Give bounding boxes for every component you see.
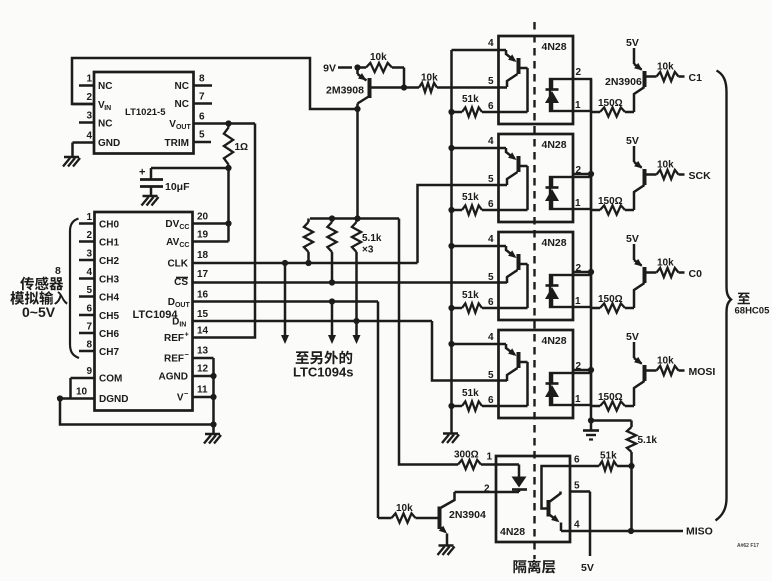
U2 pin 11 V- — [177, 385, 214, 404]
svg-text:6: 6 — [574, 455, 580, 466]
transistor Q3 2N3906 — [634, 146, 645, 210]
svg-text:5: 5 — [488, 272, 494, 283]
transistor Q4 2N3906 — [634, 244, 645, 308]
svg-text:4N28: 4N28 — [542, 335, 567, 347]
svg-text:CC: CC — [179, 242, 189, 249]
wire DIN drop to opto4 — [432, 321, 507, 381]
U1 pin 1 NC — [79, 74, 112, 93]
svg-text:CH2: CH2 — [99, 256, 119, 267]
svg-text:16: 16 — [197, 290, 209, 301]
U4 LED — [545, 275, 559, 307]
U2 pin 12 AGND — [159, 364, 214, 383]
svg-text:1: 1 — [87, 74, 93, 85]
optocoupler U5 4N28 body — [499, 330, 574, 418]
wire DVcc feed — [227, 168, 230, 224]
wire DVcc to AVcc — [227, 224, 230, 242]
svg-text:LT1021-5: LT1021-5 — [125, 107, 166, 118]
label signal MISO — [686, 526, 713, 538]
label signal MOSI — [689, 366, 716, 378]
svg-text:5.1k: 5.1k — [362, 233, 382, 244]
svg-text:51k: 51k — [462, 388, 479, 399]
svg-text:CH5: CH5 — [99, 311, 119, 322]
svg-text:4: 4 — [488, 38, 494, 49]
U2 pin 1 CH0 — [79, 212, 119, 231]
svg-text:51k: 51k — [462, 192, 479, 203]
svg-text:6: 6 — [488, 395, 494, 406]
U2 pin 14 REF+ — [164, 326, 209, 345]
bracket analog inputs — [70, 219, 79, 359]
resistor 5.1k pullup CLK — [304, 219, 313, 264]
svg-text:5: 5 — [87, 285, 93, 296]
svg-text:2N3904: 2N3904 — [449, 509, 486, 521]
resistor 51k U5 — [452, 388, 483, 411]
svg-text:3: 3 — [87, 249, 93, 260]
svg-text:CC: CC — [179, 224, 189, 231]
resistor 10k base Q3 — [646, 160, 685, 180]
U2 pin 5 label — [488, 76, 494, 87]
svg-text:DV: DV — [165, 219, 179, 230]
U2 pin 2 CH1 — [79, 230, 119, 249]
resistor 150-ohm U5 — [591, 392, 634, 411]
U5 pin 1 label — [575, 394, 581, 405]
node 51k/5.1k junction — [628, 463, 634, 469]
resistor 10k base Q5 — [646, 356, 685, 376]
svg-text:×3: ×3 — [362, 245, 374, 256]
svg-text:NC: NC — [98, 81, 112, 92]
U3 pin 4 bus tap — [448, 145, 454, 151]
U5 pin 2 wire — [573, 361, 591, 372]
svg-text:9V: 9V — [323, 63, 336, 75]
U5 LED box — [550, 373, 591, 405]
label signal SCK — [689, 170, 712, 182]
svg-text:CH3: CH3 — [99, 275, 119, 286]
svg-text:5V: 5V — [626, 135, 639, 147]
node 51k bus junction U3 — [448, 207, 454, 213]
U1 pin 5 TRIM — [165, 130, 211, 150]
arrow CLK to other LTC1094s — [281, 263, 289, 344]
svg-text:1: 1 — [575, 100, 581, 111]
arrow DIN to other LTC1094s — [353, 321, 361, 344]
svg-text:+: + — [185, 330, 190, 339]
svg-text:7: 7 — [199, 92, 205, 103]
U5 phototransistor — [506, 344, 528, 406]
svg-text:150Ω: 150Ω — [598, 392, 623, 403]
label 68HC05 — [735, 306, 771, 317]
label 5.1k x3 — [362, 233, 382, 256]
svg-text:4N28: 4N28 — [500, 526, 525, 538]
resistor 5.1k pullup CS — [327, 219, 336, 283]
resistor 10k base Q2 — [646, 62, 685, 82]
wire 2M3908 emitter to 5V rail — [356, 109, 359, 219]
wire VOUT to 1-ohm and AVcc drop — [194, 122, 256, 125]
node DVcc junction — [225, 220, 231, 226]
svg-text:2: 2 — [576, 361, 582, 372]
U2 pin 2 label — [576, 67, 582, 78]
resistor 5.1k pulldown — [627, 421, 658, 467]
U3 pin 4 wire — [452, 136, 507, 148]
U6 LED — [484, 465, 527, 495]
svg-text:13: 13 — [197, 346, 209, 357]
svg-text:6: 6 — [87, 304, 93, 315]
IC U1 LT1021-5 body — [94, 72, 194, 154]
svg-text:0~5V: 0~5V — [22, 304, 56, 320]
U3 pin 1 label — [575, 198, 581, 209]
svg-text:NC: NC — [98, 119, 112, 130]
svg-text:10k: 10k — [421, 73, 438, 84]
svg-text:7: 7 — [87, 322, 93, 333]
label analog-input (Chinese) — [10, 291, 67, 305]
U1 pin 8 NC — [175, 74, 212, 93]
svg-text:12: 12 — [197, 364, 209, 375]
U3 LED box — [550, 177, 591, 209]
svg-text:4: 4 — [488, 332, 494, 343]
svg-text:68HC05: 68HC05 — [735, 306, 771, 317]
wire 10k bias to collector node — [403, 68, 406, 88]
U2 pin 6 wire 51k row — [482, 101, 528, 112]
svg-text:300Ω: 300Ω — [454, 450, 479, 461]
node cathode bus ground junction — [588, 417, 594, 423]
U2 pin 10 DGND — [60, 387, 128, 406]
svg-text:2: 2 — [576, 165, 582, 176]
wire CLK riser to opto2 — [418, 185, 508, 263]
resistor 51k U4 — [452, 290, 483, 313]
resistor 150-ohm U2 — [591, 98, 634, 117]
svg-text:D: D — [168, 297, 175, 308]
svg-text:8: 8 — [87, 340, 93, 351]
node CLK arrow tap — [282, 260, 288, 266]
wire 2N3904 collector to U6 pin 2 — [455, 491, 497, 494]
resistor R 1-ohm — [224, 124, 248, 169]
svg-text:CH0: CH0 — [99, 220, 119, 231]
svg-text:4: 4 — [488, 136, 494, 147]
svg-text:51k: 51k — [462, 290, 479, 301]
U6 pin 4 wire MISO — [561, 520, 631, 532]
svg-text:150Ω: 150Ω — [598, 196, 623, 207]
svg-text:AGND: AGND — [159, 372, 188, 383]
svg-text:SCK: SCK — [689, 170, 712, 182]
svg-text:A#62 F17: A#62 F17 — [737, 543, 759, 549]
node 51k bus junction U4 — [448, 305, 454, 311]
transistor Q1 2M3908 — [326, 68, 404, 110]
node 9V junction — [354, 64, 360, 70]
ground at U1 GND — [63, 143, 80, 167]
ground at 2N3904 emitter — [438, 546, 455, 556]
U3 LED — [545, 177, 559, 209]
U2 LED — [545, 79, 559, 111]
svg-text:10k: 10k — [657, 160, 674, 171]
svg-text:REF: REF — [164, 354, 184, 365]
U2 pin 13 REF- — [164, 346, 214, 365]
resistor 10k base Q4 — [646, 258, 685, 278]
wire DGND down to analog ground rail — [60, 399, 214, 425]
resistor 10k bias — [358, 52, 405, 72]
svg-text:IN: IN — [104, 105, 111, 112]
svg-text:150Ω: 150Ω — [598, 98, 623, 109]
label to (Chinese) — [738, 293, 750, 305]
transistor Q2 2N3906 — [634, 48, 645, 112]
U4 pin 1 label — [575, 296, 581, 307]
svg-text:5: 5 — [574, 481, 580, 492]
svg-text:REF: REF — [164, 333, 184, 344]
node ground rail junction — [210, 421, 216, 427]
svg-text:GND: GND — [98, 138, 120, 149]
svg-text:2: 2 — [87, 230, 93, 241]
svg-text:2: 2 — [576, 67, 582, 78]
U1 pin 6 VOUT — [169, 112, 205, 132]
label 5V Q3 — [626, 135, 639, 147]
svg-text:14: 14 — [197, 326, 209, 337]
svg-text:DGND: DGND — [99, 394, 128, 405]
svg-text:4N28: 4N28 — [542, 41, 567, 53]
svg-text:10k: 10k — [657, 62, 674, 73]
svg-text:LTC1094s: LTC1094s — [293, 365, 353, 380]
svg-text:CLK: CLK — [167, 259, 188, 270]
U1 pin 3 NC — [79, 111, 112, 130]
U2 pin 4 wire — [452, 38, 507, 50]
U2 pin 5 CH4 — [79, 285, 119, 304]
svg-text:1: 1 — [575, 198, 581, 209]
optocoupler U4 4N28 body — [499, 232, 574, 320]
U4 pin 6 wire 51k row — [482, 297, 528, 308]
wire DOUT drop to 2N3904 base — [377, 302, 380, 519]
transistor Q5 2N3906 — [634, 342, 645, 406]
resistor 5.1k pullup DIN — [352, 219, 361, 322]
node V- junction — [210, 394, 216, 400]
label sensor (Chinese) — [20, 277, 63, 291]
U2 pin 8 CH7 — [79, 340, 119, 359]
svg-text:−: − — [185, 350, 190, 359]
wire cathode-bus to 5.1k — [591, 419, 632, 422]
svg-text:2: 2 — [87, 92, 93, 103]
svg-text:4: 4 — [87, 131, 93, 142]
U2 pin 7 CH6 — [79, 322, 119, 341]
node rail feed junction — [354, 215, 360, 221]
U2 LED box — [550, 79, 591, 111]
svg-text:C0: C0 — [689, 268, 703, 280]
wire CLK row — [193, 262, 418, 265]
label 9V supply — [323, 63, 352, 75]
ground at isolated bus — [442, 434, 459, 444]
U1 pin 7 NC — [175, 92, 212, 111]
svg-text:6: 6 — [488, 297, 494, 308]
U4 LED box — [550, 275, 591, 307]
svg-text:1: 1 — [575, 296, 581, 307]
U4 pin 4 wire — [452, 234, 507, 246]
U2 pin 18 CLK — [167, 250, 208, 270]
svg-text:8: 8 — [199, 74, 205, 85]
optocoupler U6 4N28 body — [496, 456, 570, 542]
ground at cathode bus — [583, 421, 599, 440]
label signal C1 — [689, 72, 703, 84]
label 5V Q4 — [626, 233, 639, 245]
svg-text:MOSI: MOSI — [689, 366, 716, 378]
wire 5V pullup rail — [310, 217, 399, 220]
resistor 10k 2N3904 base — [378, 503, 438, 523]
IC U2 LTC1094 body — [95, 212, 193, 411]
svg-text:5: 5 — [488, 174, 494, 185]
node AGND junction — [210, 373, 216, 379]
svg-text:18: 18 — [197, 250, 209, 261]
wire DOUT row — [193, 300, 379, 303]
node DIN pullup tap — [353, 318, 359, 324]
U1 pin 4 GND — [73, 131, 121, 150]
svg-text:CH7: CH7 — [99, 347, 119, 358]
U4 pin 2 bus junction — [588, 269, 594, 275]
svg-text:2N3906: 2N3906 — [605, 76, 642, 88]
U2 pin 17 CS — [174, 269, 208, 288]
wire rail drop to 300-ohm — [399, 219, 458, 465]
svg-text:OUT: OUT — [176, 124, 192, 131]
wire isolated ground bus — [450, 50, 453, 434]
node rail middle junction — [329, 215, 335, 221]
svg-text:51k: 51k — [600, 451, 617, 462]
label 5V Q5 — [626, 331, 639, 343]
svg-text:17: 17 — [197, 269, 209, 280]
svg-text:150Ω: 150Ω — [598, 294, 623, 305]
node 1-ohm bottom junction — [225, 165, 231, 171]
svg-text:20: 20 — [197, 212, 209, 223]
svg-text:CH6: CH6 — [99, 329, 119, 340]
node 2M3908 collector junction — [401, 84, 407, 90]
svg-text:1Ω: 1Ω — [235, 142, 249, 153]
svg-text:MISO: MISO — [686, 526, 713, 538]
wire LED cathode bus — [590, 79, 593, 421]
svg-text:10k: 10k — [657, 258, 674, 269]
node MISO junction — [628, 528, 634, 534]
svg-text:5: 5 — [488, 370, 494, 381]
wire MISO out — [631, 530, 683, 533]
U5 pin 4 bus tap — [448, 341, 454, 347]
wire DIN row — [193, 320, 433, 323]
optocoupler U3 4N28 body — [499, 134, 574, 222]
svg-text:1: 1 — [487, 452, 493, 463]
svg-text:10k: 10k — [657, 356, 674, 367]
svg-text:CH4: CH4 — [99, 293, 119, 304]
svg-text:5: 5 — [488, 76, 494, 87]
node DOUT arrow tap — [329, 298, 335, 304]
wire 1-ohm bottom to cap — [151, 167, 229, 170]
ground at U2 AGND rail — [204, 425, 221, 444]
svg-text:CH1: CH1 — [99, 238, 119, 249]
svg-text:OUT: OUT — [175, 302, 191, 309]
svg-text:5V: 5V — [626, 37, 639, 49]
wire CS row to opto3 — [193, 281, 508, 284]
svg-text:5V: 5V — [581, 562, 594, 574]
U4 pin 5 label — [488, 272, 494, 283]
wire REF+ to VOUT — [193, 124, 256, 338]
svg-text:6: 6 — [488, 101, 494, 112]
resistor 51k U2 — [452, 94, 483, 117]
label Q2 2N3906 — [605, 76, 642, 88]
resistor 300-ohm — [454, 450, 496, 470]
U2 pin 20 DVcc — [165, 212, 228, 232]
label to-other-LTC1094s (Chinese) — [296, 351, 353, 365]
svg-text:2: 2 — [576, 263, 582, 274]
svg-text:1: 1 — [575, 394, 581, 405]
label 5V bottom — [581, 562, 594, 574]
svg-text:IN: IN — [179, 322, 186, 329]
U2 pin 19 AVcc — [166, 230, 228, 250]
svg-text:9: 9 — [87, 366, 93, 377]
U2 pin 3 CH2 — [79, 249, 119, 268]
svg-text:4: 4 — [574, 520, 580, 531]
node DGND junction — [57, 395, 63, 401]
U4 pin 4 bus tap — [448, 243, 454, 249]
svg-text:TRIM: TRIM — [165, 138, 189, 149]
optocoupler U2 4N28 body — [499, 36, 574, 124]
capacitor C1 10uF — [139, 167, 190, 197]
U3 phototransistor — [506, 148, 528, 210]
U3 pin 5 label — [488, 174, 494, 185]
brace to 68HC05 — [716, 71, 732, 521]
svg-text:CS: CS — [174, 277, 188, 288]
U5 pin 4 wire — [452, 332, 507, 344]
arrow DOUT to other LTC1094s — [328, 302, 336, 345]
U3 pin 2 bus junction — [588, 171, 594, 177]
wire REF-/AGND/V- tie — [212, 358, 215, 425]
U6 pin 6 label — [574, 455, 580, 466]
label 0-5V — [22, 304, 56, 320]
node 2M3908 emitter junction — [354, 106, 360, 112]
svg-text:−: − — [184, 389, 189, 398]
U4 pin 2 wire — [573, 263, 591, 274]
wire pin5 to 5V drop — [589, 492, 592, 557]
svg-text:10k: 10k — [370, 52, 387, 63]
label LTC1094s — [293, 365, 353, 380]
label 5V Q2 — [626, 37, 639, 49]
resistor 150-ohm U4 — [591, 294, 634, 313]
resistor 51k U3 — [452, 192, 483, 215]
svg-text:2M3908: 2M3908 — [326, 85, 364, 97]
svg-text:6: 6 — [199, 112, 205, 123]
caption tiny — [737, 543, 759, 549]
svg-text:51k: 51k — [462, 94, 479, 105]
svg-text:D: D — [172, 317, 179, 328]
label 8 channels — [55, 265, 61, 277]
wire VIN net (top long wire to 2M3908 emitter) — [72, 58, 358, 109]
svg-text:5: 5 — [199, 130, 205, 141]
svg-text:4N28: 4N28 — [542, 139, 567, 151]
label isolation layer (Chinese) — [513, 560, 555, 574]
svg-text:+: + — [139, 167, 145, 179]
svg-text:V: V — [177, 393, 184, 404]
resistor 150-ohm U3 — [591, 196, 634, 215]
resistor 10k drive — [404, 73, 507, 93]
U4 phototransistor — [506, 246, 528, 308]
ground at C1 — [142, 196, 159, 206]
U5 LED — [545, 373, 559, 405]
svg-text:NC: NC — [175, 99, 189, 110]
transistor Q6 2N3904 — [439, 492, 486, 546]
U3 pin 6 wire 51k row — [482, 199, 528, 210]
node 51k bus junction U5 — [448, 403, 454, 409]
U5 pin 5 label — [488, 370, 494, 381]
svg-text:19: 19 — [197, 230, 209, 241]
svg-text:15: 15 — [197, 309, 209, 320]
U2 phototransistor — [506, 50, 528, 112]
svg-text:11: 11 — [197, 385, 208, 396]
U5 pin 2 bus junction — [588, 367, 594, 373]
svg-text:10μF: 10μF — [165, 181, 190, 193]
U3 pin 2 wire — [573, 165, 591, 176]
isolation barrier dashed line — [533, 22, 535, 559]
svg-text:5V: 5V — [626, 233, 639, 245]
resistor 51k U6 — [570, 451, 632, 471]
svg-text:5V: 5V — [626, 331, 639, 343]
node CS pullup tap — [329, 279, 335, 285]
svg-text:4: 4 — [87, 267, 93, 278]
svg-text:NC: NC — [175, 81, 189, 92]
